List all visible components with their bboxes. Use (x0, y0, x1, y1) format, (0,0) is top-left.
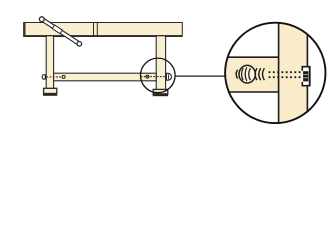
hidden thread dotted row top (269, 71, 302, 73)
leg inner face line (278, 21, 280, 125)
leg outer face lower segment (306, 86, 308, 115)
dowel curvature arc 1 (242, 68, 244, 80)
stretcher end cross-section (224, 57, 279, 92)
right leg (156, 36, 165, 90)
arc left of dowel (236, 70, 237, 79)
left bench bolt head (42, 75, 45, 80)
bolt thread arc 1 (255, 68, 257, 80)
magnifier circle outline (225, 23, 325, 123)
bolt thread arc 3 (263, 68, 265, 80)
connector line to magnified view (175, 75, 225, 77)
right foot dark base (153, 93, 168, 96)
rod lower ball (77, 42, 82, 47)
left bolt hidden shank (46, 76, 62, 78)
left foot (44, 88, 57, 93)
magnified detail contents (224, 21, 310, 125)
leg outer face upper segment (306, 30, 308, 67)
bolt head counterbore right bar (309, 66, 311, 87)
stretcher rail (54, 73, 157, 81)
right bolt hidden shank (141, 76, 166, 78)
vise handle rod (41, 17, 81, 45)
left leg (46, 36, 53, 89)
dowel curvature arc 2 (245, 67, 247, 81)
benchtop underside edge (23, 35, 182, 37)
right bolt head face line (168, 74, 170, 79)
right foot (153, 89, 168, 94)
detail highlight circle (141, 58, 176, 93)
counterbore left stub top (301, 66, 303, 71)
cross dowel (magnified) (239, 65, 255, 83)
leg cross-section board (279, 21, 308, 125)
right bench bolt head (166, 73, 171, 80)
hidden thread dotted row bottom (269, 76, 302, 78)
benchtop slab (24, 23, 183, 36)
bolt thread arc 2 (259, 68, 261, 80)
bolt head hatch light line 1 (303, 73, 308, 75)
bolt head counterbore bottom bar (302, 85, 310, 87)
counterbore pocket interior (302, 66, 311, 86)
right cross dowel (146, 75, 149, 78)
counterbore left stub bottom (301, 82, 303, 87)
benchtop left end grain (23, 22, 25, 36)
left bolt washer (45, 74, 47, 79)
bolt head hatch light line 2 (303, 77, 308, 79)
benchtop lamination line A (93, 23, 95, 36)
rod upper ball (39, 17, 44, 22)
benchtop lamination line B (96, 23, 98, 36)
stretcher bottom edge (224, 91, 279, 93)
stretcher top edge (224, 56, 279, 58)
bolt head counterbore top bar (302, 66, 310, 68)
dowel curvature arc 3 (249, 68, 251, 80)
left cross dowel (62, 75, 65, 78)
left foot dark base (43, 93, 57, 96)
bolt head block (303, 71, 308, 81)
